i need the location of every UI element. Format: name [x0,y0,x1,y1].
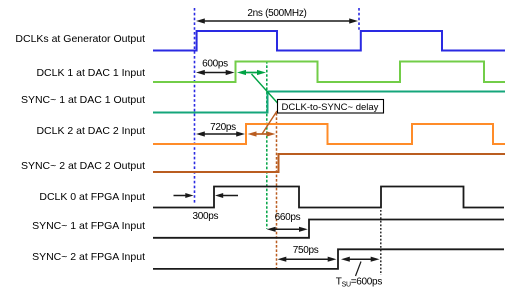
svg-text:2ns (500MHz): 2ns (500MHz) [247,8,306,19]
svg-text:600ps: 600ps [202,59,228,70]
svg-text:DCLK 0 at FPGA Input: DCLK 0 at FPGA Input [39,191,145,203]
svg-text:DCLK-to-SYNC~ delay: DCLK-to-SYNC~ delay [282,102,379,113]
svg-text:SYNC~ 1 at DAC 1 Output: SYNC~ 1 at DAC 1 Output [21,94,145,106]
svg-text:300ps: 300ps [193,211,219,222]
svg-text:DCLKs at Generator Output: DCLKs at Generator Output [15,33,145,45]
svg-text:TSU=600ps: TSU=600ps [336,277,383,289]
svg-text:720ps: 720ps [210,122,236,133]
svg-text:DCLK 2 at DAC 2 Input: DCLK 2 at DAC 2 Input [36,125,145,137]
svg-text:SYNC~ 2 at FPGA Input: SYNC~ 2 at FPGA Input [32,251,145,263]
svg-text:750ps: 750ps [293,245,319,256]
svg-text:660ps: 660ps [275,212,301,223]
svg-text:DCLK 1 at DAC 1 Input: DCLK 1 at DAC 1 Input [36,67,145,79]
svg-text:SYNC~ 1 at FPGA Input: SYNC~ 1 at FPGA Input [32,220,145,232]
svg-text:SYNC~ 2 at DAC 2 Output: SYNC~ 2 at DAC 2 Output [21,160,145,172]
